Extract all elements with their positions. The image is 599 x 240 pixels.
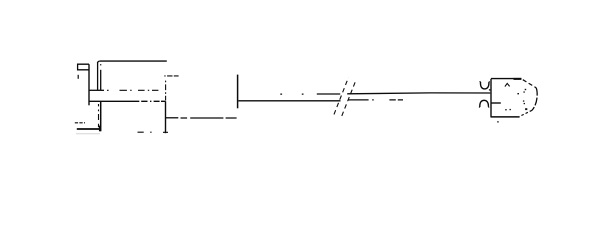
cable upper line dots (left of break) bbox=[280, 93, 303, 95]
pad marker tick bbox=[237, 75, 239, 109]
connector bottom-right corner dashed bbox=[520, 110, 532, 116]
right centerline horizontal upper bbox=[164, 75, 178, 77]
body vertical V2 bbox=[97, 62, 99, 91]
grommet loop upper bbox=[480, 82, 490, 89]
connector top edge bbox=[491, 78, 521, 80]
mid line solid bbox=[89, 89, 104, 91]
mid centerline dash-dot bbox=[107, 89, 158, 91]
right stub solid bbox=[166, 117, 178, 119]
grommet loop lower bbox=[479, 100, 489, 107]
foot hidden dashes bbox=[75, 122, 85, 124]
body bottom line solid bbox=[89, 100, 139, 102]
connector internal line bbox=[492, 102, 501, 104]
body right edge vertical bbox=[165, 101, 167, 133]
top corner arc bbox=[98, 61, 101, 63]
cable upper line solid (left of break) bbox=[317, 93, 340, 95]
pin hidden line bbox=[98, 104, 100, 127]
connector top-right corner dashed bbox=[523, 80, 536, 88]
body vertical V3 top dot bbox=[100, 64, 102, 65]
long hidden dash line to marker bbox=[181, 117, 237, 119]
foot hook bbox=[99, 126, 101, 132]
pin solid line bbox=[100, 101, 102, 131]
cable lower line fading (right of break) bbox=[348, 99, 403, 101]
body vertical V3 bbox=[100, 70, 102, 91]
bottom dash-dot line bbox=[138, 131, 169, 133]
connector top edge thick part bbox=[514, 78, 522, 80]
pad clip bracket bbox=[78, 64, 89, 70]
faint under-line bbox=[76, 133, 100, 135]
connector caret detail bbox=[505, 83, 510, 86]
body bottom line dash-dot bbox=[141, 100, 165, 102]
break slash 2 bbox=[342, 80, 356, 116]
connector stray dots bbox=[489, 89, 527, 123]
foot line bbox=[77, 128, 101, 130]
connector right arc bbox=[532, 88, 537, 111]
body vertical V1 bbox=[88, 64, 90, 105]
connector bottom edge bbox=[491, 116, 520, 118]
top long line L1 bbox=[100, 60, 167, 62]
break slash 1 bbox=[334, 78, 348, 115]
connector left edge bbox=[490, 79, 492, 117]
cable lower line (left of break) bbox=[238, 100, 340, 102]
cable upper line (right of break) bbox=[347, 92, 490, 95]
right centerline vertical dash-dot bbox=[165, 81, 167, 101]
hidden dash below bracket bbox=[77, 75, 79, 79]
